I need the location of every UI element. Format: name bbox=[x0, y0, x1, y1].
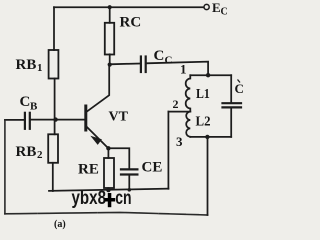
capacitor CB bbox=[25, 113, 30, 129]
node: base junction dot bbox=[53, 117, 57, 121]
inductor L2 bbox=[186, 112, 190, 137]
svg-text:L2: L2 bbox=[196, 115, 211, 130]
wire: tank bottom drop to border bbox=[207, 137, 209, 215]
svg-text:2: 2 bbox=[37, 149, 43, 161]
wire: C branch top bbox=[230, 75, 232, 102]
node: collector/CC junction dot bbox=[108, 63, 112, 67]
wire: outer left border bbox=[4, 120, 6, 214]
label C (tank) bbox=[235, 80, 244, 97]
capacitor CE bbox=[121, 169, 137, 174]
wire: RB1 to base node bbox=[54, 79, 56, 120]
wire: tap 2 stub bbox=[168, 111, 190, 113]
svg-text:RC: RC bbox=[120, 15, 142, 31]
resistor RB2 bbox=[48, 134, 58, 163]
capacitor CC bbox=[141, 57, 146, 73]
terminal EC bbox=[204, 4, 209, 9]
svg-text:C: C bbox=[20, 94, 31, 110]
wire: RB2 column below base node bbox=[54, 120, 56, 135]
resistor RC bbox=[105, 23, 114, 55]
wire: emitter to CE branch bbox=[108, 148, 129, 168]
svg-text:C: C bbox=[221, 7, 228, 18]
wire: CC to tank top corner bbox=[147, 62, 209, 76]
wire: RB2 to bottom rail bbox=[52, 163, 54, 191]
svg-text:L1: L1 bbox=[196, 87, 210, 102]
node: tank top junction dot bbox=[206, 73, 210, 77]
wire: RE to bottom rail bbox=[107, 188, 109, 190]
wire: emitter to RE bbox=[107, 148, 109, 158]
svg-text:E: E bbox=[212, 0, 221, 15]
svg-text:ybx8: ybx8 bbox=[72, 188, 107, 209]
wire: top supply rail bbox=[54, 6, 203, 8]
transistor VT base bar bbox=[84, 106, 87, 130]
inductor L1 bbox=[186, 75, 191, 110]
wire: outer bottom border bbox=[5, 212, 208, 215]
wire: emitter junction bbox=[106, 146, 110, 150]
svg-text:1: 1 bbox=[37, 62, 43, 74]
node: tank bottom junction dot bbox=[205, 135, 209, 139]
wire: tank top node line bbox=[190, 74, 231, 76]
label RB1 bbox=[16, 57, 43, 74]
svg-text:C: C bbox=[235, 81, 244, 96]
transistor VT collector lead bbox=[87, 65, 110, 112]
node: CE bottom junction dot bbox=[128, 188, 132, 192]
svg-text:2: 2 bbox=[173, 97, 179, 111]
wire: CB to base node bbox=[31, 119, 54, 121]
wire: left edge to CB bbox=[5, 119, 24, 121]
svg-text:VT: VT bbox=[109, 110, 129, 125]
svg-text:RB: RB bbox=[16, 57, 37, 73]
transistor VT emitter lead bbox=[87, 127, 109, 149]
svg-text:(a): (a) bbox=[54, 219, 66, 230]
svg-text:C: C bbox=[165, 55, 173, 67]
node: RC top junction bbox=[108, 5, 112, 9]
wire: CE to bottom rail bbox=[128, 176, 130, 190]
svg-text:RB: RB bbox=[16, 144, 37, 160]
transistor VT emitter arrow bbox=[92, 137, 102, 145]
node: RE bottom junction dot bbox=[106, 188, 110, 192]
wire: C branch bottom bbox=[230, 108, 232, 136]
wire: tap 2 drop bbox=[167, 112, 169, 189]
wire: inner bottom rail bbox=[49, 189, 168, 191]
svg-text:3: 3 bbox=[176, 134, 183, 149]
wire: tank bottom node line bbox=[190, 136, 231, 138]
resistor RE bbox=[104, 158, 114, 188]
svg-text:RE: RE bbox=[78, 162, 99, 178]
svg-text:C: C bbox=[154, 48, 165, 64]
wire: RC bottom to collector bbox=[109, 54, 111, 64]
capacitor C bbox=[223, 103, 242, 107]
wire: collector to CC bbox=[110, 63, 140, 66]
wire: RB1 column from rail bbox=[53, 7, 55, 50]
label RB2 bbox=[16, 144, 44, 161]
svg-text:B: B bbox=[30, 101, 38, 113]
label CB bbox=[20, 94, 39, 113]
wire: base node to transistor base bbox=[56, 119, 85, 121]
svg-text:1: 1 bbox=[180, 62, 187, 77]
label EC bbox=[212, 0, 228, 18]
wire: rail to RC top bbox=[109, 7, 111, 23]
svg-text:cn: cn bbox=[115, 188, 131, 209]
svg-text:CE: CE bbox=[142, 160, 163, 176]
watermark ybx8.cn bbox=[72, 188, 132, 209]
label CC bbox=[154, 48, 173, 67]
resistor RB1 bbox=[49, 50, 59, 79]
